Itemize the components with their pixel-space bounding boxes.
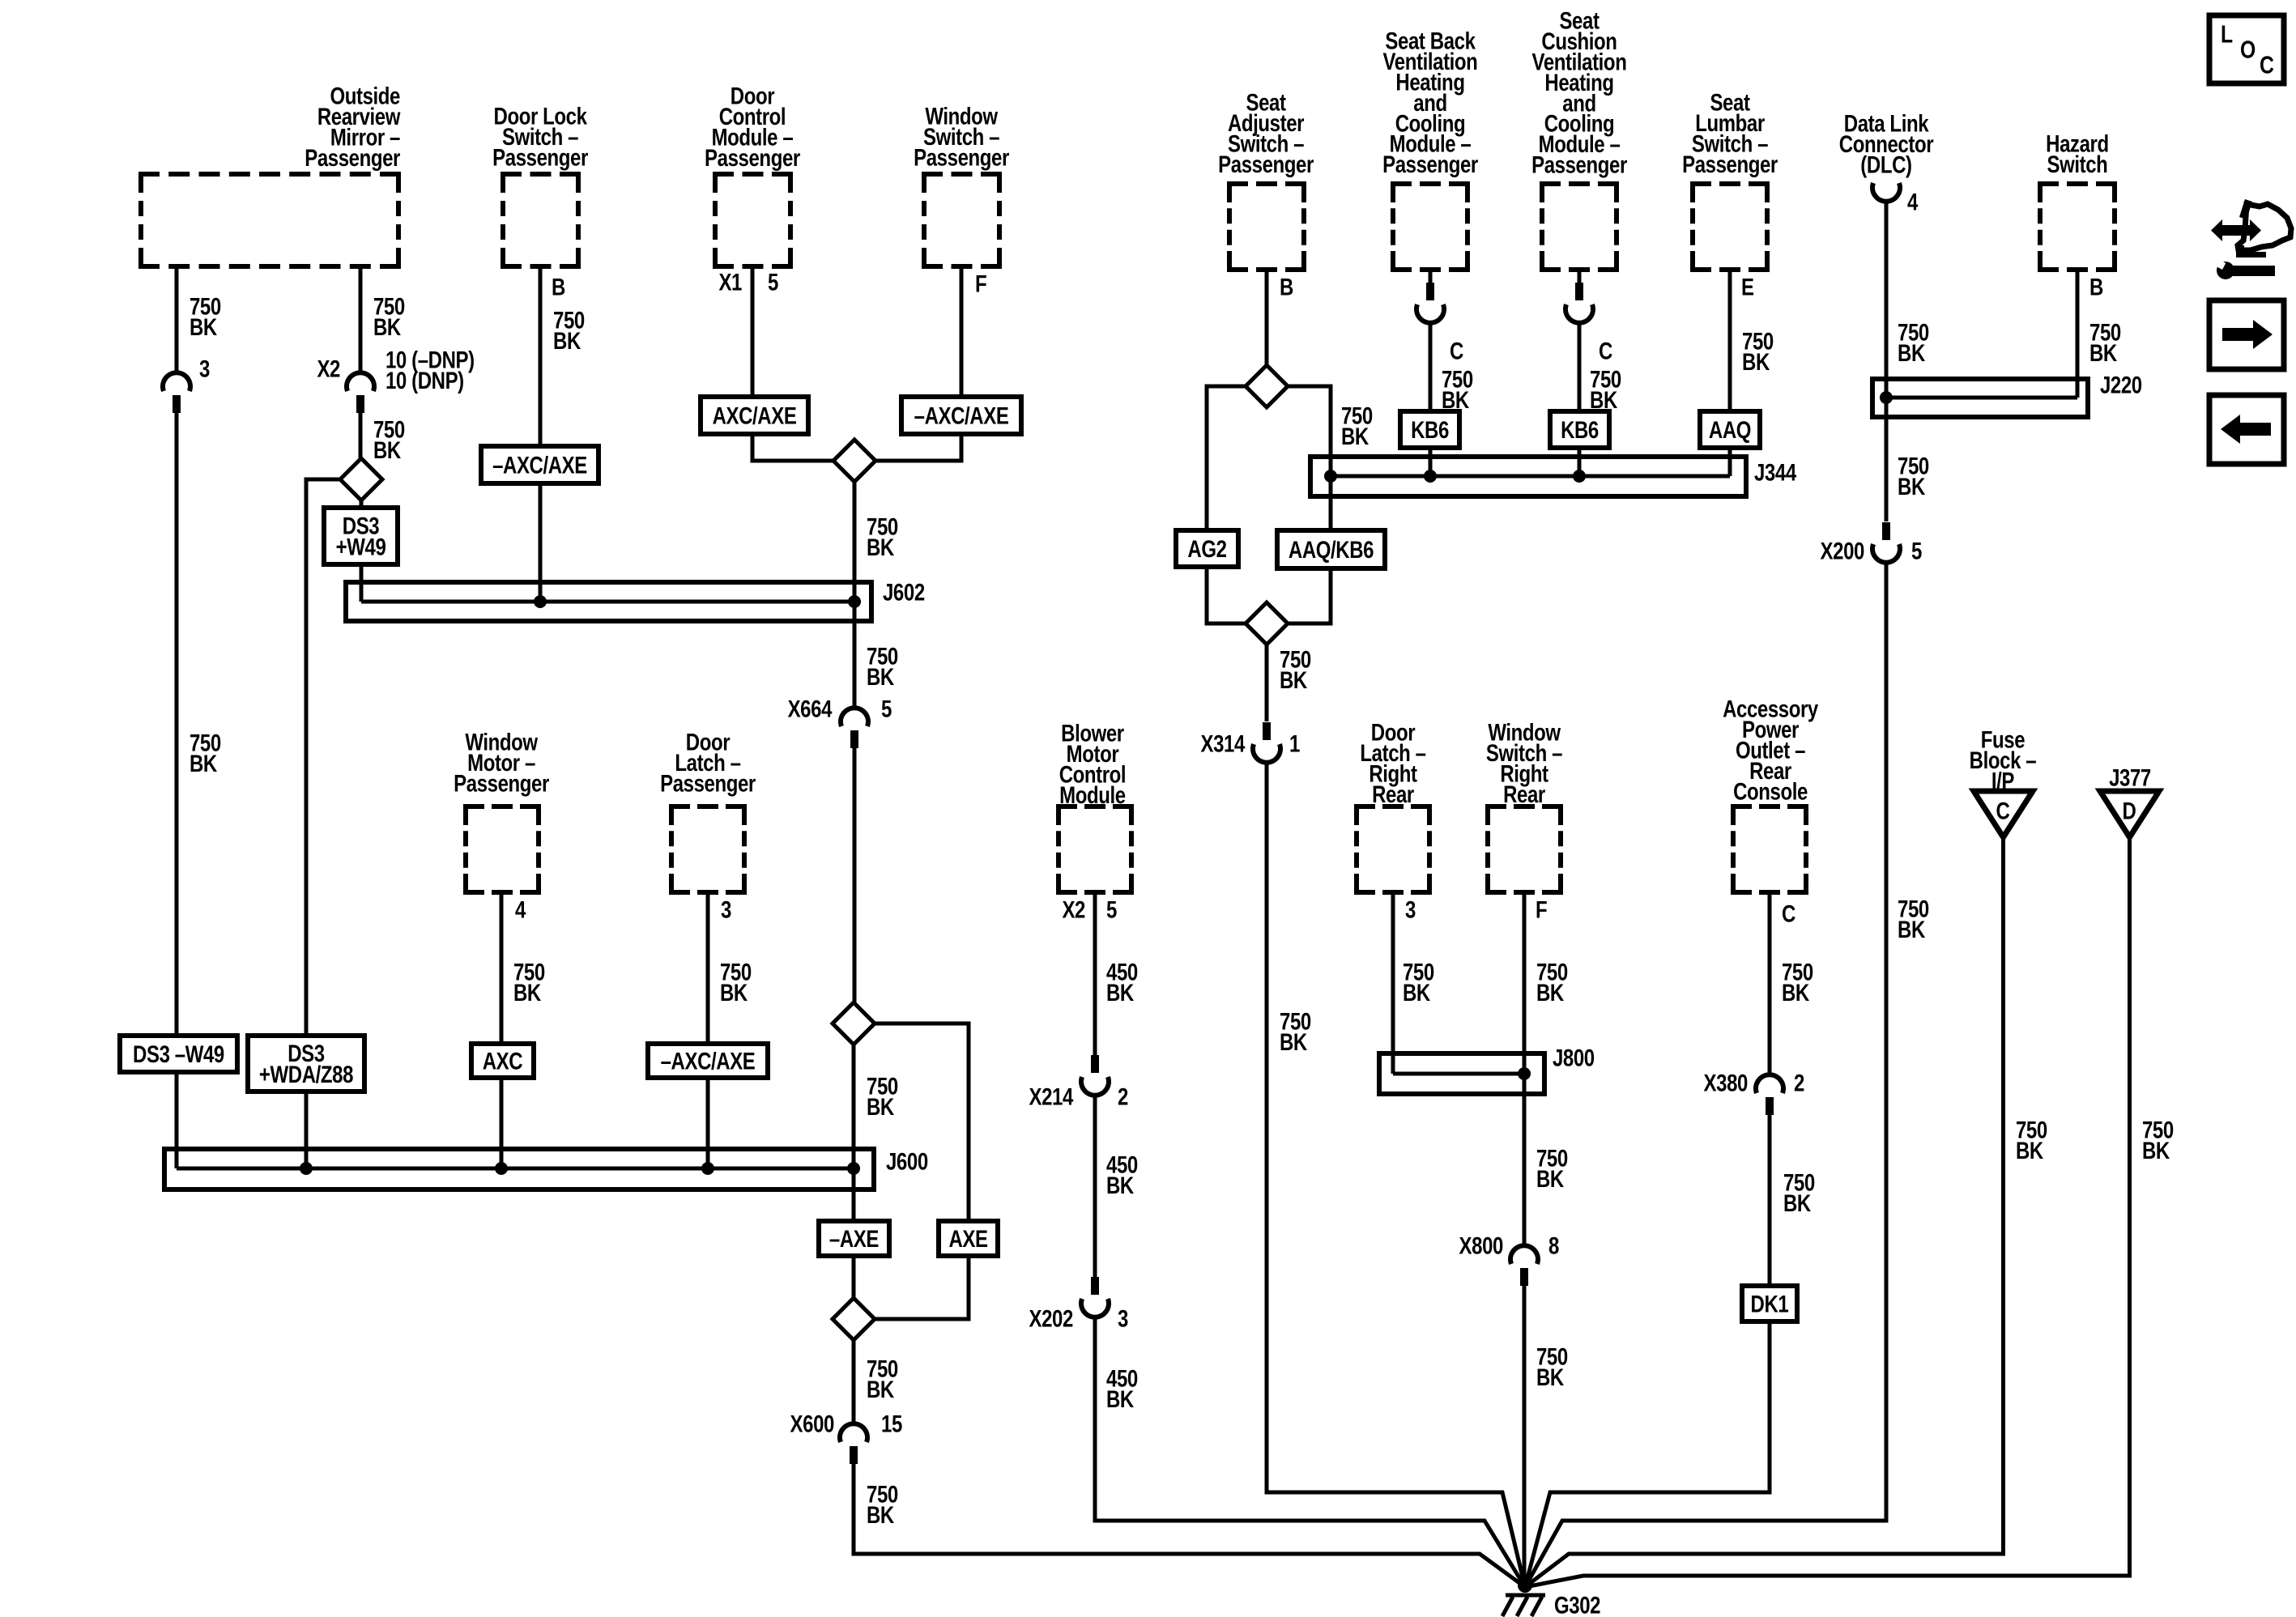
wire X380 to DK1 — [1768, 1115, 1772, 1286]
icon LOC box — [2209, 15, 2284, 83]
svg-text:X2: X2 — [1062, 896, 1085, 923]
svg-text:10 (DNP): 10 (DNP) — [386, 366, 464, 394]
svg-text:C: C — [2260, 51, 2274, 79]
svg-text:C: C — [1599, 337, 1612, 364]
svg-text:C: C — [1996, 797, 2009, 824]
junction dot door lock at J602 — [534, 595, 547, 608]
wire DS3 -W49 to splice J600 — [175, 1072, 179, 1168]
box AXC — [471, 1044, 534, 1078]
svg-text:X200: X200 — [1821, 537, 1864, 564]
svg-text:BK: BK — [373, 313, 402, 340]
splice pack J600 — [164, 1149, 874, 1189]
box -AXE — [819, 1221, 889, 1256]
svg-text:B: B — [552, 273, 565, 300]
component Accessory Power Outlet - Rear Console (dashed box) — [1733, 806, 1806, 892]
component Seat Adjuster Switch - Passenger (dashed box) — [1229, 184, 1304, 270]
wire DLC to J220 — [1885, 201, 1889, 398]
svg-text:B: B — [1280, 273, 1293, 300]
svg-text:Passenger: Passenger — [1531, 151, 1628, 178]
wire AAQ to splice J344 — [1728, 448, 1732, 476]
junction dot seat adjuster at J344 — [1324, 470, 1337, 483]
wire door lock switch pin B — [539, 266, 543, 446]
svg-text:(DLC): (DLC) — [1860, 151, 1911, 178]
svg-text:D: D — [2122, 797, 2136, 824]
svg-text:Passenger: Passenger — [305, 143, 401, 171]
svg-text:3: 3 — [199, 355, 210, 382]
splice pack J220 — [1872, 379, 2088, 417]
svg-text:X380: X380 — [1704, 1069, 1748, 1096]
wire J377 to ground G302 — [1525, 837, 2130, 1587]
svg-text:BK: BK — [1536, 1363, 1565, 1390]
svg-text:BK: BK — [1106, 978, 1135, 1006]
wire X600 to ground G302 — [854, 1464, 1525, 1587]
svg-text:BK: BK — [1341, 422, 1370, 449]
svg-text:–AXC/AXE: –AXC/AXE — [914, 402, 1009, 429]
svg-text:I/P: I/P — [1991, 767, 2014, 794]
junction dot seat back at J344 — [1424, 470, 1437, 483]
svg-text:X664: X664 — [788, 695, 833, 722]
svg-text:BK: BK — [1403, 978, 1431, 1006]
wire AXC/AXE to splice diamond — [752, 434, 833, 461]
wire window switch pin F — [960, 266, 964, 397]
svg-text:+W49: +W49 — [336, 533, 386, 560]
box DS3 -W49 — [120, 1036, 237, 1072]
wire diamond through J600 to -AXE box — [852, 1045, 856, 1221]
component Window Switch - Passenger (dashed box) — [924, 174, 999, 266]
svg-text:2: 2 — [1794, 1069, 1804, 1096]
wire door latch pin 3 — [706, 892, 710, 1044]
box -AXC/AXE (window switch) — [901, 397, 1021, 434]
svg-text:G302: G302 — [1554, 1591, 1600, 1617]
component Outside Rearview Mirror - Passenger (dashed box) — [141, 174, 398, 266]
component J377 (triangle D) — [2100, 791, 2159, 837]
wire hazard switch pin B — [2076, 270, 2080, 398]
svg-text:3: 3 — [1118, 1304, 1128, 1332]
wire DS3 +W49 to splice J602 — [360, 564, 364, 602]
splice diamond (seat adjuster top) — [1246, 365, 1288, 407]
svg-text:4: 4 — [515, 896, 526, 923]
svg-text:BK: BK — [553, 326, 581, 354]
svg-text:BK: BK — [373, 436, 402, 463]
wire DK1 to ground G302 — [1525, 1321, 1770, 1587]
svg-text:BK: BK — [2142, 1136, 2170, 1164]
icon vehicle with wrench (service info) — [2238, 204, 2291, 250]
svg-text:–AXE: –AXE — [829, 1224, 879, 1252]
box DS3 +WDA/Z88 — [248, 1036, 364, 1091]
wire -AXE to splice diamond — [852, 1256, 856, 1298]
svg-text:Passenger: Passenger — [454, 769, 550, 797]
splice pack J800 — [1379, 1053, 1544, 1094]
box -AXC/AXE (door latch) — [648, 1044, 768, 1078]
svg-text:BK: BK — [1536, 1164, 1565, 1192]
svg-text:2: 2 — [1118, 1083, 1128, 1110]
svg-text:BK: BK — [1742, 347, 1770, 375]
svg-text:X202: X202 — [1029, 1304, 1074, 1332]
wire AXE to splice diamond — [875, 1256, 969, 1319]
svg-text:BK: BK — [1280, 1028, 1308, 1055]
connector X380 — [1756, 1074, 1783, 1093]
svg-text:AXC: AXC — [483, 1047, 522, 1074]
wire diamond to AXE branch — [875, 1023, 969, 1221]
svg-text:DS3 –W49: DS3 –W49 — [133, 1040, 224, 1067]
svg-text:5: 5 — [1106, 896, 1117, 923]
component Door Latch - Passenger (dashed box) — [671, 806, 744, 892]
svg-text:X600: X600 — [790, 1410, 834, 1437]
svg-text:J344: J344 — [1754, 458, 1796, 486]
svg-text:C: C — [1782, 900, 1795, 927]
svg-text:3: 3 — [721, 896, 731, 923]
icon arrow left box — [2209, 395, 2284, 464]
svg-text:Switch: Switch — [2047, 150, 2107, 177]
wire diamond to AG2 box — [1207, 386, 1246, 530]
svg-text:Passenger: Passenger — [1218, 150, 1314, 177]
splice diamond (AXC/AXE junction) — [833, 440, 875, 482]
component Seat Back Ventilation Heating and Cooling Module - Passenger (dashed box) — [1393, 184, 1467, 270]
box DS3 +W49 — [324, 508, 398, 564]
wire seat cushion module to connector C — [1578, 270, 1582, 283]
connector C (seat cushion) — [1575, 283, 1583, 300]
svg-text:8: 8 — [1548, 1232, 1559, 1259]
wire window motor pin 4 — [500, 892, 504, 1044]
wire connector to KB6 box — [1429, 322, 1433, 411]
component Door Latch - Right Rear (dashed box) — [1357, 806, 1429, 892]
wire AG2 to splice diamond bottom — [1207, 567, 1246, 623]
component Door Control Module - Passenger (dashed box) — [715, 174, 790, 266]
svg-text:KB6: KB6 — [1561, 415, 1599, 443]
connector X200 — [1882, 522, 1890, 540]
wire seat adjuster pin B — [1265, 270, 1269, 365]
svg-text:X800: X800 — [1459, 1232, 1503, 1259]
svg-text:B: B — [2089, 273, 2103, 300]
svg-text:3: 3 — [1405, 896, 1416, 923]
splice diamond (AXE branch top) — [833, 1002, 875, 1045]
wire X664 to splice diamond — [853, 748, 857, 1002]
svg-text:O: O — [2240, 36, 2256, 63]
wire mirror to connector X2 — [359, 266, 363, 373]
wire fuse block to ground G302 — [1525, 837, 2004, 1587]
svg-text:F: F — [1536, 896, 1547, 923]
wire -AXC/AXE to splice diamond — [875, 434, 961, 461]
svg-text:1: 1 — [1289, 730, 1300, 757]
svg-text:BK: BK — [1898, 472, 1926, 500]
svg-text:X314: X314 — [1201, 730, 1246, 757]
svg-text:BK: BK — [867, 533, 895, 560]
svg-text:BK: BK — [867, 1092, 895, 1120]
junction dot window motor at J600 — [495, 1162, 508, 1175]
svg-text:E: E — [1741, 273, 1754, 300]
svg-text:BK: BK — [190, 749, 218, 777]
connector X214 — [1091, 1055, 1099, 1073]
wire AAQ/KB6 to splice diamond bottom — [1288, 568, 1331, 623]
icon arrow right box — [2209, 300, 2284, 369]
svg-text:Passenger: Passenger — [492, 143, 589, 171]
svg-text:Console: Console — [1733, 777, 1808, 805]
junction dot door latch at J600 — [701, 1162, 714, 1175]
junction dot seat cushion at J344 — [1573, 470, 1586, 483]
svg-text:15: 15 — [881, 1410, 902, 1437]
component Window Motor - Passenger (dashed box) — [466, 806, 539, 892]
svg-text:BK: BK — [1536, 978, 1565, 1006]
component Fuse Block - I/P (triangle C) — [1974, 791, 2033, 837]
box AAQ/KB6 — [1277, 530, 1385, 568]
svg-text:BK: BK — [2089, 338, 2118, 366]
svg-text:F: F — [975, 270, 986, 297]
component Door Lock Switch - Passenger (dashed box) — [503, 174, 578, 266]
box -AXC/AXE (door lock) — [481, 446, 598, 483]
box AAQ — [1700, 411, 1760, 448]
svg-text:J377: J377 — [2109, 764, 2151, 791]
connector X664 — [841, 708, 868, 726]
svg-text:+WDA/Z88: +WDA/Z88 — [259, 1060, 353, 1087]
box AG2 — [1176, 530, 1238, 567]
svg-text:DK1: DK1 — [1751, 1290, 1789, 1317]
svg-text:AG2: AG2 — [1187, 534, 1226, 562]
splice diamond (AXE branch bottom) — [833, 1298, 875, 1340]
wire DS3 +WDA/Z88 to splice J600 — [305, 1091, 309, 1168]
svg-text:5: 5 — [1911, 537, 1922, 564]
svg-text:X214: X214 — [1029, 1083, 1074, 1110]
svg-text:5: 5 — [768, 268, 778, 296]
svg-text:–AXC/AXE: –AXC/AXE — [492, 451, 587, 479]
svg-text:Passenger: Passenger — [705, 143, 801, 171]
box AXE — [939, 1221, 998, 1256]
svg-text:BK: BK — [1280, 666, 1308, 693]
box KB6 (seat back) — [1400, 411, 1459, 448]
wire J220 to X200 — [1885, 398, 1889, 521]
box AXC/AXE — [701, 397, 808, 434]
svg-text:4: 4 — [1907, 188, 1918, 215]
wire -AXC/AXE to splice J602 — [539, 483, 543, 602]
connector inline (mirror pin 3) — [163, 372, 190, 391]
splice pack J602 — [346, 582, 871, 621]
svg-text:–AXC/AXE: –AXC/AXE — [661, 1047, 756, 1074]
connector X2 — [347, 372, 374, 391]
connector X800 — [1510, 1245, 1538, 1264]
svg-text:J600: J600 — [886, 1147, 928, 1175]
wire mirror pin 3 to connector — [175, 266, 179, 373]
junction dot DS3+WDA at J600 — [300, 1162, 313, 1175]
wire diamond through J344 to AAQ/KB6 box — [1288, 386, 1331, 530]
svg-text:AXC/AXE: AXC/AXE — [713, 402, 797, 429]
svg-text:L: L — [2221, 20, 2233, 48]
svg-text:Passenger: Passenger — [1682, 150, 1778, 177]
svg-text:Rear: Rear — [1503, 780, 1546, 807]
svg-text:AAQ: AAQ — [1709, 415, 1751, 443]
svg-text:BK: BK — [867, 662, 895, 690]
svg-text:Rear: Rear — [1372, 780, 1415, 807]
box KB6 (seat cushion) — [1550, 411, 1609, 448]
svg-text:Passenger: Passenger — [1382, 150, 1479, 177]
svg-text:BK: BK — [513, 978, 542, 1006]
svg-text:C: C — [1450, 337, 1463, 364]
svg-text:Module: Module — [1059, 781, 1126, 808]
svg-text:5: 5 — [881, 695, 892, 722]
wire seat lumbar pin E — [1728, 270, 1732, 411]
component Hazard Switch (dashed box) — [2040, 184, 2115, 270]
wire KB6 to splice J344 — [1429, 448, 1433, 476]
svg-text:BK: BK — [720, 978, 748, 1006]
svg-text:J602: J602 — [883, 578, 925, 606]
wire X2 to splice diamond — [359, 413, 363, 458]
wire connector to KB6 box — [1578, 322, 1582, 411]
wire AXC to splice J600 — [500, 1078, 504, 1168]
connector X314 — [1263, 722, 1271, 740]
wire X800 to ground G302 — [1523, 1286, 1527, 1585]
wire door latch RR pin 3 — [1391, 892, 1395, 1074]
component Seat Lumbar Switch - Passenger (dashed box) — [1693, 184, 1767, 270]
svg-text:BK: BK — [1106, 1171, 1135, 1198]
wire door control module pin X1-5 — [751, 266, 755, 397]
component Window Switch - Right Rear (dashed box) — [1488, 806, 1561, 892]
svg-text:BK: BK — [1782, 978, 1810, 1006]
svg-text:X2: X2 — [317, 355, 340, 382]
connector X600 — [840, 1423, 867, 1442]
wire window switch RR pin F — [1523, 892, 1527, 1246]
splice pack J344 — [1310, 457, 1746, 496]
svg-text:J220: J220 — [2100, 371, 2142, 398]
svg-text:X1: X1 — [718, 268, 742, 296]
svg-text:J800: J800 — [1553, 1044, 1595, 1071]
junction dot main at J600 — [847, 1162, 860, 1175]
wire X202 to ground G302 — [1095, 1317, 1525, 1587]
svg-text:AAQ/KB6: AAQ/KB6 — [1289, 535, 1374, 563]
svg-text:BK: BK — [190, 313, 218, 340]
component Blower Motor Control Module (dashed box) — [1059, 806, 1131, 892]
svg-text:BK: BK — [1898, 338, 1926, 366]
splice diamond (seat adjuster bottom) — [1246, 602, 1288, 645]
svg-text:BK: BK — [1783, 1189, 1812, 1216]
svg-text:Passenger: Passenger — [914, 143, 1010, 171]
wire connector to DS3 -W49 box — [175, 413, 179, 1036]
junction dot main at J602 — [848, 595, 861, 608]
connector C (seat back) — [1426, 283, 1434, 300]
svg-text:BK: BK — [2016, 1136, 2044, 1164]
wire blower module pin X2-5 — [1093, 892, 1097, 1055]
connector DLC pin 4 — [1872, 183, 1900, 202]
wire seat back module to connector C — [1429, 270, 1433, 283]
wire -AXC/AXE to splice J600 — [706, 1078, 710, 1168]
svg-text:AXE: AXE — [948, 1224, 987, 1252]
wire accessory outlet pin C — [1768, 892, 1772, 1075]
svg-text:Passenger: Passenger — [660, 769, 756, 797]
connector X202 — [1091, 1277, 1099, 1295]
svg-text:BK: BK — [1106, 1385, 1135, 1412]
svg-text:KB6: KB6 — [1411, 415, 1449, 443]
wire diamond to DS3 +W49 box — [360, 500, 364, 508]
component Seat Cushion Ventilation Heating and Cooling Module - Passenger (dashed box) — [1542, 184, 1617, 270]
ground G302 symbol — [1518, 1578, 1532, 1593]
svg-text:BK: BK — [867, 1500, 895, 1528]
splice diamond (DS3 branch) — [340, 458, 382, 500]
box DK1 — [1742, 1286, 1797, 1321]
svg-text:BK: BK — [867, 1375, 895, 1402]
wire diamond through J602 to X664 — [853, 482, 857, 709]
junction dot window switch RR at J800 — [1518, 1067, 1531, 1080]
wire X214 to X202 — [1093, 1095, 1097, 1277]
wire diamond to DS3 +WDA/Z88 branch — [306, 479, 340, 1036]
wire X200 to ground G302 — [1525, 562, 1886, 1587]
svg-text:BK: BK — [1898, 915, 1926, 943]
wire diamond to X314 — [1265, 645, 1269, 721]
wire KB6 to splice J344 — [1578, 448, 1582, 476]
wire X314 to ground G302 — [1267, 762, 1525, 1587]
wire diamond to X600 — [852, 1340, 856, 1424]
junction dot DLC at J220 — [1880, 391, 1893, 404]
